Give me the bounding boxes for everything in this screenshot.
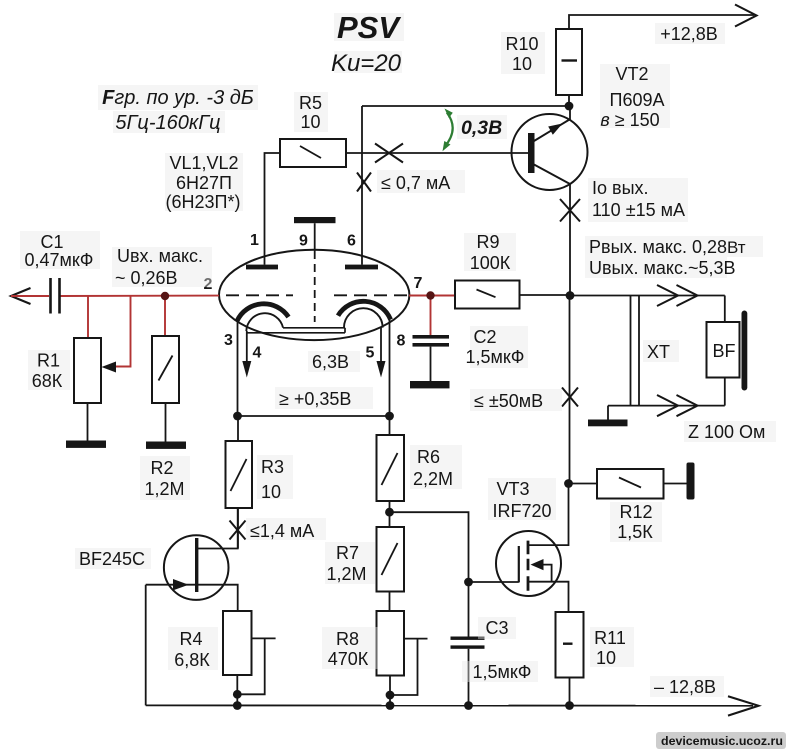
svg-text:П609А: П609А [610, 90, 665, 110]
svg-text:Ku=20: Ku=20 [331, 50, 402, 77]
svg-text:1: 1 [250, 232, 259, 249]
label Io vyh 110±15 mA [588, 178, 688, 222]
label R8 470К [322, 627, 378, 669]
wire output column [569, 296, 571, 484]
VT3 body arrow [531, 559, 544, 570]
svg-text:R9: R9 [476, 232, 499, 252]
resistor R5 [265, 139, 529, 265]
VL left grid dashed [226, 294, 293, 296]
svg-text:Z 100 Ом: Z 100 Ом [688, 422, 765, 442]
label VL1,VL2 [165, 153, 243, 212]
svg-text:68К: 68К [32, 371, 63, 391]
capacitor C3 [451, 637, 485, 706]
arrow output lower chevrons [657, 395, 698, 416]
X mark drain current [230, 521, 246, 540]
svg-text:R7: R7 [336, 543, 359, 563]
arrow input [11, 288, 31, 304]
node R10 bottom / VT2 emitter [565, 102, 574, 111]
node VT3 drain R12 [564, 479, 573, 488]
svg-text:С3: С3 [485, 618, 508, 638]
svg-text:R6: R6 [417, 447, 440, 467]
node R8 bottom [386, 691, 395, 700]
VL shield top bar pin 9 [294, 217, 336, 322]
terminal bar R12 [687, 463, 695, 500]
svg-text:2,2М: 2,2М [413, 469, 453, 489]
tube VL1/VL2 envelope [219, 250, 409, 340]
connector XT lines [631, 295, 640, 406]
svg-text:R1: R1 [37, 351, 60, 371]
svg-text:Io вых.: Io вых. [592, 178, 649, 198]
svg-text:7: 7 [414, 275, 423, 292]
label R7 1,2М [325, 542, 375, 584]
VL heater bus [247, 328, 345, 333]
label ≤0,7 мА [377, 170, 465, 193]
svg-text:≤ ±50мВ: ≤ ±50мВ [474, 391, 543, 411]
wire cathode pin 8 [389, 320, 391, 416]
svg-text:110 ±15 мА: 110 ±15 мА [592, 200, 685, 220]
VL left cathode arc [237, 304, 289, 321]
svg-text:1,5мкФ: 1,5мкФ [473, 662, 532, 682]
svg-text:devicemusic.ucoz.ru: devicemusic.ucoz.ru [661, 734, 783, 748]
svg-text:Uвых. макс.~5,3В: Uвых. макс.~5,3В [589, 258, 736, 278]
transistor VT2 [512, 106, 588, 296]
svg-text:R8: R8 [336, 629, 359, 649]
resistor R4 [223, 611, 252, 706]
label Pvyh maks 0,28Vt [585, 236, 763, 257]
label R10 10 [501, 32, 545, 74]
node gate C3 [464, 578, 473, 587]
svg-text:6,3В: 6,3В [312, 352, 349, 372]
label R4 6,8К [168, 627, 218, 670]
svg-text:8: 8 [397, 333, 406, 350]
arrow -12.8V [728, 696, 759, 715]
svg-text:3: 3 [224, 332, 233, 349]
wire output upper [570, 295, 725, 297]
resistor R11 [556, 612, 584, 706]
svg-text:5: 5 [366, 345, 375, 362]
label <=±50мВ [470, 389, 562, 411]
X mark on grid wire [375, 144, 403, 163]
VL heater pin 5 arrow [377, 328, 386, 378]
node R6-R7 junction [385, 508, 394, 517]
svg-text:1,2М: 1,2М [326, 564, 366, 584]
label Uvx maks ~0,26В [112, 246, 212, 288]
svg-text:+12,8В: +12,8В [660, 24, 718, 44]
node cathode right [385, 412, 394, 421]
node output [566, 291, 575, 300]
svg-text:5Гц-160кГц: 5Гц-160кГц [115, 112, 220, 134]
svg-text:BF245C: BF245C [79, 549, 145, 569]
resistor R7 [377, 527, 405, 611]
svg-text:0,3В: 0,3В [461, 117, 502, 139]
VL right anode [345, 265, 378, 270]
label VT2 П609А в>=150 [600, 64, 670, 130]
svg-text:100К: 100К [470, 253, 511, 273]
watermark devicemusic.ucoz.ru [656, 732, 786, 749]
VL left heater arc [246, 313, 283, 331]
svg-text:≤ 0,7 мА: ≤ 0,7 мА [381, 173, 450, 193]
resistor R10 [556, 29, 582, 106]
BF245C gate arrow [173, 579, 189, 590]
ground XT [588, 406, 628, 427]
ground C2 [410, 381, 450, 388]
svg-text:6: 6 [347, 233, 356, 250]
svg-text:R12: R12 [619, 502, 652, 522]
label title PSV [334, 10, 404, 45]
svg-text:1,5К: 1,5К [617, 522, 653, 542]
label F gr. po ur. -3 dB [98, 85, 258, 110]
speaker BF [707, 296, 748, 406]
svg-text:470К: 470К [328, 649, 369, 669]
svg-text:(6Н23П*): (6Н23П*) [166, 192, 241, 212]
arrow output upper chevrons [657, 285, 698, 306]
wire top feedback rail [362, 105, 569, 107]
node R4 rail [233, 701, 242, 710]
resistor R2 [152, 336, 179, 442]
VL right cathode arc [338, 301, 391, 319]
svg-text:10: 10 [596, 648, 616, 668]
svg-text:6Н27П: 6Н27П [176, 173, 232, 193]
svg-text:Fгр. по ур. -3 дБ: Fгр. по ур. -3 дБ [102, 87, 254, 109]
label -12,8В [650, 676, 724, 697]
node cathode left [233, 412, 242, 421]
VL right grid dashed [334, 294, 407, 296]
label >=+0,35В [275, 387, 373, 409]
svg-text:1,5мкФ: 1,5мкФ [466, 347, 525, 367]
svg-text:Рвых. макс. 0,28Вт: Рвых. макс. 0,28Вт [589, 237, 746, 257]
label C2 1,5мкФ [466, 326, 528, 368]
resistor R1 potentiometer [74, 338, 101, 441]
wire +12.8V top rail [569, 15, 754, 29]
svg-text:10: 10 [261, 482, 281, 502]
wire cathode link [238, 415, 390, 417]
label <=1,4 мА [246, 518, 326, 541]
svg-text:Uвх. макс.: Uвх. макс. [117, 246, 203, 266]
label C3 1,5мкФ [478, 617, 516, 639]
label R12 1,5К [610, 502, 662, 542]
R1 wiper arrow [102, 362, 117, 373]
label XT [643, 340, 679, 362]
label R6 2,2М [410, 445, 462, 489]
resistor R3 [226, 416, 253, 549]
label R5 10 [294, 92, 328, 132]
wire cathode pin 3 [237, 321, 239, 416]
svg-text:10: 10 [512, 54, 532, 74]
R8 trimmer tap [390, 639, 428, 695]
ground R2 [146, 442, 186, 449]
transistor VT1 BF245C [146, 508, 238, 705]
svg-text:VL1,VL2: VL1,VL2 [169, 153, 238, 173]
ground R1 [66, 441, 106, 448]
label +12,8В [655, 23, 725, 44]
svg-text:BF: BF [712, 341, 735, 361]
label R11 10 [590, 627, 634, 668]
svg-text:R4: R4 [179, 629, 202, 649]
svg-text:PSV: PSV [337, 10, 401, 45]
resistor R9 [455, 281, 570, 309]
svg-text:– 12,8В: – 12,8В [654, 677, 716, 697]
wire input red [11, 296, 455, 367]
node R8 rail [386, 701, 395, 710]
svg-text:10: 10 [300, 112, 320, 132]
transistor VT3 IRF720 [496, 484, 569, 613]
X mark on anode column [357, 173, 371, 192]
svg-text:в ≥ 150: в ≥ 150 [600, 110, 659, 130]
wire output lower [608, 405, 725, 407]
svg-text:0,47мкФ: 0,47мкФ [25, 250, 94, 270]
label 6,3В [308, 351, 360, 372]
node input R2 tap [161, 292, 169, 300]
svg-text:R10: R10 [505, 34, 538, 54]
X mark on VT2 collector [560, 199, 580, 222]
svg-text:1,2М: 1,2М [144, 479, 184, 499]
label pin numbers [204, 232, 423, 362]
VL right heater arc [344, 308, 383, 327]
resistor R8 [377, 611, 405, 706]
wire R6-R7 junction to VT3 gate [390, 512, 519, 636]
label R1 68К [28, 350, 70, 391]
arrow green 0,3V measurement [445, 113, 453, 147]
node C3 rail [464, 701, 473, 710]
svg-text:R5: R5 [299, 93, 322, 113]
svg-text:С2: С2 [473, 327, 496, 347]
label R2 1,2М [140, 456, 190, 500]
svg-text:IRF720: IRF720 [492, 501, 551, 521]
label Z 100 Ом [684, 421, 776, 442]
wire anode VL right column [361, 106, 363, 265]
svg-text:≤1,4 мА: ≤1,4 мА [250, 521, 314, 541]
X mark on output column [562, 388, 578, 407]
svg-text:≥ +0,35В: ≥ +0,35В [279, 389, 351, 409]
svg-text:9: 9 [299, 233, 308, 250]
svg-text:R3: R3 [261, 457, 284, 477]
resistor R6 [377, 416, 405, 527]
label VT3 IRF720 [488, 478, 556, 521]
label R3 10 [257, 455, 293, 502]
VT2 emitter arrow [548, 124, 562, 135]
svg-text:С1: С1 [40, 232, 63, 252]
R4 trimmer tap [237, 638, 275, 694]
node R11 rail [565, 701, 574, 710]
capacitor C1 [51, 278, 60, 314]
svg-text:VT2: VT2 [615, 64, 648, 84]
svg-text:VT3: VT3 [496, 479, 529, 499]
svg-text:R11: R11 [594, 628, 626, 648]
label R9 100К [464, 232, 516, 273]
capacitor C2 [413, 335, 450, 381]
node R4 bottom [233, 690, 242, 699]
VL left anode [246, 265, 278, 270]
resistor R12 [569, 469, 687, 499]
label 5Gc-160kGc [113, 111, 225, 134]
label Ku=20 [331, 50, 402, 77]
label 0,3В green [457, 115, 507, 139]
svg-text:R2: R2 [150, 458, 173, 478]
svg-text:4: 4 [253, 345, 262, 362]
svg-text:XT: XT [647, 342, 670, 362]
node pin7 C2 [426, 291, 434, 299]
arrow +12.8V [735, 5, 757, 27]
wire -12.8V bottom rail [146, 704, 753, 706]
label BF245C [75, 548, 151, 569]
label Uvyh maks ~5,3V [585, 257, 736, 278]
label C1 0,47мкФ [20, 231, 100, 270]
svg-text:~ 0,26В: ~ 0,26В [115, 268, 178, 288]
svg-text:6,8К: 6,8К [174, 650, 210, 670]
VL heater pin 4 arrow [242, 331, 251, 378]
